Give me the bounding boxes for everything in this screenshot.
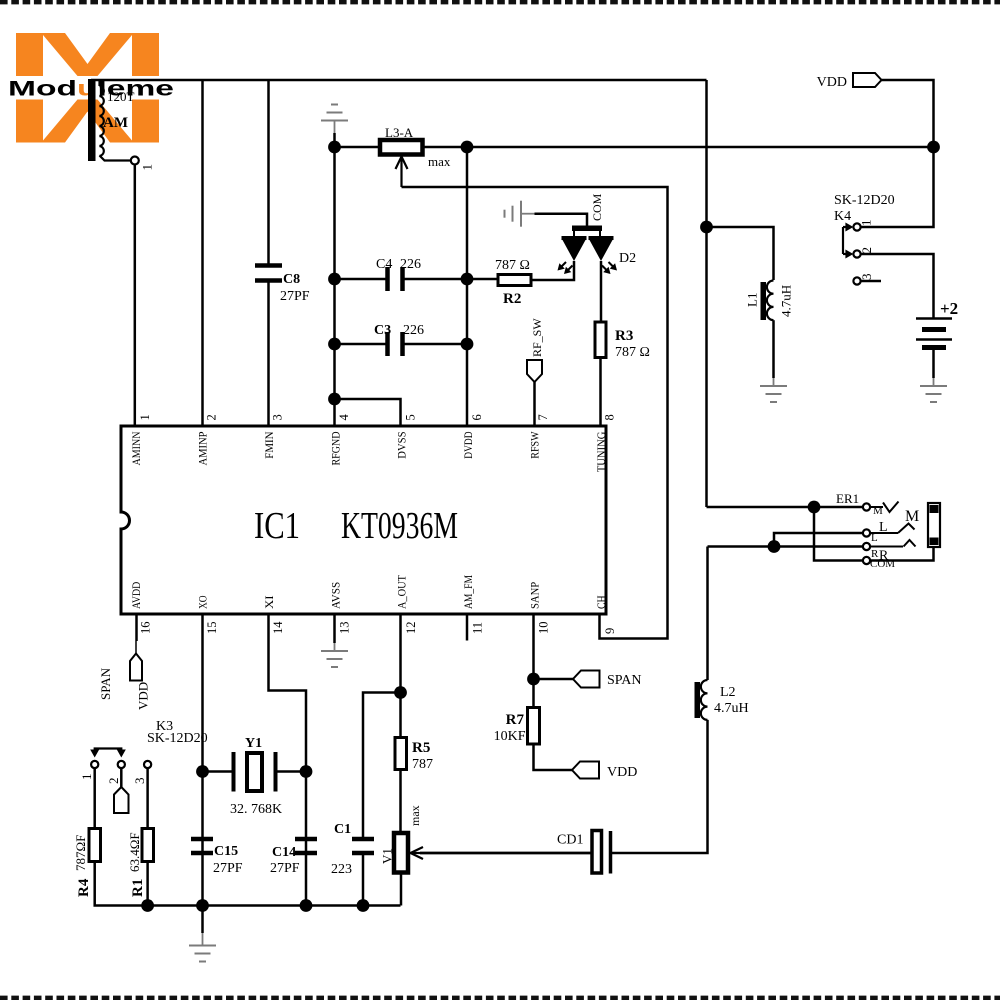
wire R4 to bus [95, 862, 401, 906]
bottom dashed border [0, 996, 1000, 1000]
V1 wiper arrow [420, 852, 592, 855]
logo Moduleme lower M (flipped) [16, 100, 159, 143]
svg-text:SPAN: SPAN [607, 673, 642, 688]
wire antenna top to x=706 [91, 79, 707, 82]
node dot XI crystal [300, 765, 313, 778]
switch K4 selector bracket [842, 227, 844, 254]
wire L1 to ground [772, 320, 775, 378]
wire A_OUT branch to C1 [363, 693, 401, 838]
net flag SPAN [573, 671, 600, 688]
net flag VDD pin16 [130, 654, 142, 681]
switch K3 pin 3 [144, 761, 151, 768]
wire R7 to VDD flag [534, 744, 573, 770]
wire top to IC pin 2 [201, 80, 204, 426]
jack pin COM [863, 557, 870, 564]
svg-text:L2: L2 [720, 685, 736, 700]
svg-text:DVSS: DVSS [395, 432, 409, 459]
node dot C1 bus [357, 899, 370, 912]
jack pin M [863, 503, 870, 510]
svg-text:max: max [408, 805, 422, 826]
svg-text:12: 12 [404, 622, 418, 635]
wire RFGND to DVSS pin 5 [335, 399, 401, 426]
wire C3 right [403, 343, 468, 346]
svg-text:8: 8 [603, 414, 617, 420]
wire R1 to bus [146, 862, 149, 906]
wire pin11 AM_FM stub [466, 614, 469, 641]
node dot L R join [768, 540, 781, 553]
svg-text:C15: C15 [214, 844, 238, 859]
svg-text:27PF: 27PF [270, 861, 300, 876]
wire tuning arrow to CH [402, 187, 668, 639]
svg-text:9: 9 [603, 628, 617, 634]
node dot L1 branch [700, 221, 713, 234]
svg-text:L3-A: L3-A [385, 125, 414, 140]
wire jack R [708, 545, 863, 548]
wire R2 to LED [531, 261, 574, 280]
wire R3 to TUNING pin 8 [599, 358, 602, 427]
svg-text:120T: 120T [107, 89, 135, 104]
svg-text:4.7uH: 4.7uH [714, 701, 749, 716]
wire down right side to ER1 [705, 80, 708, 507]
svg-text:V1: V1 [380, 848, 395, 864]
antenna ferrite rod [88, 79, 96, 161]
wire R5 to V1 [399, 770, 402, 834]
wire pin13 AVSS stub [333, 614, 336, 643]
svg-text:223: 223 [331, 862, 352, 877]
svg-text:2: 2 [204, 414, 218, 420]
svg-text:XI: XI [262, 595, 276, 609]
svg-text:C14: C14 [272, 845, 296, 860]
svg-text:1: 1 [79, 774, 94, 781]
wire XI down to C14 [305, 772, 308, 906]
ground left of D2 [520, 201, 522, 227]
ground battery [920, 385, 947, 387]
jack contact L [870, 532, 898, 534]
svg-text:AM: AM [103, 115, 128, 131]
node dot DVDD C4 [461, 273, 474, 286]
jack contact R [870, 546, 903, 548]
svg-text:1: 1 [140, 164, 155, 171]
node dot R1 bus [141, 899, 154, 912]
node dot C14 bus [300, 899, 313, 912]
net flag K3 pin2 [114, 787, 129, 813]
svg-text:CH: CH [594, 595, 608, 609]
svg-text:TUNING: TUNING [594, 431, 608, 472]
wire SANP to SPAN flag [534, 678, 574, 681]
LED D2 light arrows right [609, 262, 616, 269]
node dot A_OUT [394, 686, 407, 699]
svg-text:RFGND: RFGND [328, 431, 342, 465]
svg-text:A_OUT: A_OUT [395, 574, 409, 609]
svg-text:SK-12D20: SK-12D20 [834, 193, 895, 208]
wire RFGND vertical line [333, 133, 336, 426]
svg-text:RF_SW: RF_SW [530, 318, 544, 357]
svg-text:13: 13 [338, 622, 352, 635]
svg-text:R5: R5 [412, 740, 430, 756]
jack pin R [863, 543, 870, 550]
svg-text:M: M [905, 508, 919, 525]
logo Moduleme upper M [16, 33, 159, 76]
wire K4 pin2 to battery [861, 254, 934, 318]
svg-text:AMINP: AMINP [196, 431, 210, 465]
svg-text:COM: COM [590, 193, 604, 221]
jack barrel [928, 503, 940, 547]
svg-text:3: 3 [859, 274, 874, 281]
top dashed border [0, 0, 1000, 4]
resistor R4 [89, 829, 101, 862]
svg-text:6: 6 [470, 414, 484, 420]
svg-text:7: 7 [536, 414, 550, 420]
svg-text:16: 16 [138, 622, 152, 635]
wire LED right to R3 [600, 261, 603, 322]
svg-text:3: 3 [271, 414, 285, 420]
wire VDD flag to node [882, 80, 934, 147]
svg-text:787: 787 [412, 757, 433, 772]
svg-text:14: 14 [271, 621, 285, 634]
jack contact M [870, 506, 883, 508]
node dot RFGND C4 [328, 273, 341, 286]
switch K3 pin 1 [91, 761, 98, 768]
wire A_OUT to R5 [399, 693, 402, 738]
svg-text:32. 768K: 32. 768K [230, 802, 282, 817]
svg-text:C4: C4 [376, 257, 392, 272]
inductor L1 [761, 282, 767, 320]
svg-text:3: 3 [132, 778, 147, 785]
svg-text:11: 11 [470, 622, 484, 634]
LED D2 left diode [562, 236, 587, 240]
svg-text:max: max [428, 154, 451, 169]
svg-text:KT0936M: KT0936M [341, 505, 458, 547]
wire pin14 XI jog [269, 614, 307, 772]
inductor L3-A adjustable [380, 140, 423, 155]
capacitor C14 [295, 837, 317, 842]
svg-text:SPAN: SPAN [98, 667, 113, 700]
switch K4 pin 3 [853, 277, 860, 284]
wire COM branch [814, 507, 863, 561]
node dot ER1 M branch [808, 501, 821, 514]
svg-text:4: 4 [337, 414, 351, 421]
ground L1 [760, 385, 787, 387]
svg-text:787ΩF: 787ΩF [73, 835, 88, 871]
LED D2 right diode [589, 236, 614, 240]
svg-text:1: 1 [138, 414, 152, 420]
svg-text:R2: R2 [503, 291, 521, 307]
svg-text:ER1: ER1 [836, 491, 859, 506]
node dot DVDD C3 [461, 338, 474, 351]
svg-text:AMINN: AMINN [129, 431, 143, 465]
svg-text:VDD: VDD [136, 682, 151, 710]
wire C4 right [403, 278, 468, 281]
wire pin15 XO down [201, 614, 204, 906]
svg-text:SK-12D20: SK-12D20 [147, 731, 208, 746]
wire RF_SW to pin 7 [533, 382, 536, 426]
svg-text:Y1: Y1 [245, 736, 262, 751]
wire pin16 AVDD stub [135, 614, 138, 641]
wire K4 pin1 to VDD node [861, 147, 934, 227]
svg-text:1: 1 [859, 220, 874, 227]
node dot VDD corner [927, 141, 940, 154]
capacitor C15 [191, 837, 213, 842]
node dot XO crystal [196, 765, 209, 778]
inductor L2 [695, 682, 701, 718]
wire K3 pin3 to R1 [146, 768, 149, 828]
svg-text:L1: L1 [745, 293, 760, 307]
svg-text:2: 2 [106, 778, 121, 785]
svg-text:10: 10 [537, 622, 551, 635]
capacitor C8 [255, 263, 282, 268]
ground AVSS [321, 650, 348, 652]
node dot RFGND C3 [328, 338, 341, 351]
svg-text:K4: K4 [834, 209, 851, 224]
wire K3 pin1 to R4 [93, 768, 96, 828]
svg-text:R3: R3 [615, 328, 633, 344]
svg-text:VDD: VDD [607, 765, 637, 780]
svg-text:RFSW: RFSW [528, 431, 542, 459]
jack pin L [863, 529, 870, 536]
wire pin12 A_OUT down [399, 614, 402, 693]
wire CD1 to V1 arrow [420, 852, 592, 855]
wire DVDD vertical [466, 147, 469, 426]
wire ground to D2 common [521, 213, 535, 215]
svg-text:27PF: 27PF [280, 289, 310, 304]
wire antenna node to IC pin 1 [134, 165, 137, 427]
node dot SANP [527, 673, 540, 686]
wire top to C8 [267, 80, 270, 266]
wire DVDD to R2 [467, 278, 498, 281]
resistor R5 [395, 738, 407, 770]
net flag VDD bottom [572, 762, 599, 779]
wire R branch down to L2 [706, 547, 709, 681]
svg-text:787 Ω: 787 Ω [615, 345, 650, 360]
switch K3 selector bracket [95, 749, 122, 752]
svg-text:C8: C8 [283, 272, 300, 287]
node dot XO bus [196, 899, 209, 912]
node dot DVDD top [461, 141, 474, 154]
svg-text:FMIN: FMIN [262, 431, 276, 458]
svg-text:XO: XO [196, 595, 210, 609]
wire L3-A to VDD node [423, 146, 934, 149]
svg-text:63.4ΩF: 63.4ΩF [127, 832, 142, 872]
IC U1 KT0936M body [121, 426, 606, 614]
wire battery to ground [932, 350, 935, 378]
wire V1 to bus [400, 873, 403, 906]
svg-text:CD1: CD1 [557, 833, 583, 848]
svg-text:4.7uH: 4.7uH [779, 285, 794, 317]
potentiometer V1 [394, 833, 408, 873]
switch K4 pin 2 [853, 250, 860, 257]
wire to L1 [707, 227, 774, 280]
svg-text:10KF: 10KF [494, 729, 526, 744]
node dot RFGND top [328, 141, 341, 154]
svg-text:D2: D2 [619, 251, 636, 266]
wire C3 left [335, 343, 388, 346]
wire L2 to CD1 [612, 720, 708, 853]
ground above RFGND line [321, 120, 348, 122]
svg-text:DVDD: DVDD [461, 431, 475, 458]
antenna coil wire stub [98, 80, 100, 86]
wire C1 to bus [362, 855, 365, 906]
svg-text:2: 2 [859, 247, 874, 254]
wire C4 left [335, 278, 388, 281]
svg-text:AVDD: AVDD [129, 582, 143, 609]
L3-A wiper arrow [400, 158, 402, 187]
svg-text:787 Ω: 787 Ω [495, 258, 530, 273]
svg-text:R4: R4 [76, 878, 92, 897]
resistor R7 [528, 708, 540, 745]
wire C8 to IC pin 3 [267, 283, 270, 427]
LED D2 light arrows left [559, 262, 566, 269]
svg-text:R1: R1 [130, 879, 146, 897]
antenna node circle pin 1 [131, 157, 139, 165]
svg-text:VDD: VDD [817, 75, 847, 90]
wire to ER1 M [707, 506, 863, 509]
antenna coil bottom lead [100, 156, 131, 161]
resistor R3 [595, 322, 606, 358]
node dot RFGND pin5 branch [328, 393, 341, 406]
wire K4 pin3 stub [861, 280, 881, 283]
svg-text:C1: C1 [334, 822, 351, 837]
wire pin10 SANP down [532, 614, 535, 708]
svg-text:27PF: 27PF [213, 861, 243, 876]
switch K4 pin 1 [853, 223, 860, 230]
antenna coil arcs [100, 86, 104, 156]
wire jack L [774, 533, 863, 547]
wire node to L3-A [335, 146, 381, 149]
LED D2 common bar [572, 226, 602, 232]
svg-text:15: 15 [205, 622, 219, 635]
wire COM to barrel [870, 547, 934, 561]
switch K3 pin 2 [118, 761, 125, 768]
wire bus ground stub [201, 906, 204, 934]
svg-text:5: 5 [403, 414, 417, 420]
svg-text:AM_FM: AM_FM [461, 575, 475, 609]
ground bottom bus [189, 945, 216, 947]
svg-text:AVSS: AVSS [328, 582, 342, 609]
svg-text:226: 226 [403, 323, 424, 338]
svg-text:R7: R7 [506, 712, 525, 728]
svg-text:SANP: SANP [528, 582, 542, 609]
resistor R1 [142, 829, 154, 862]
VDD power flag top right [853, 73, 882, 87]
svg-text:+2: +2 [940, 299, 958, 318]
wire K3 pin2 to flag [120, 768, 123, 787]
svg-text:IC1: IC1 [254, 505, 300, 547]
